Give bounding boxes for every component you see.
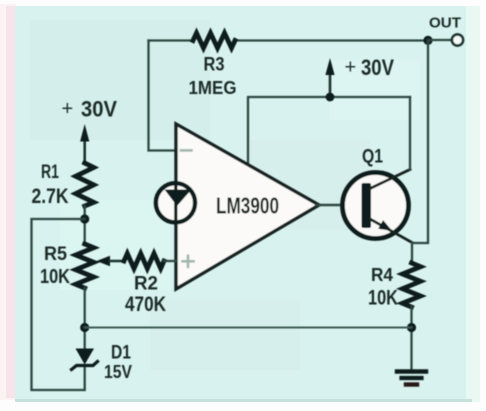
- svg-text:R2: R2: [134, 274, 158, 295]
- svg-text:LM3900: LM3900: [216, 193, 279, 219]
- wire V+ rail: [248, 97, 410, 164]
- svg-text:R5: R5: [44, 244, 67, 265]
- svg-text:2.7K: 2.7K: [32, 185, 69, 208]
- wire to output terminal: [428, 39, 451, 41]
- wire op-amp output to base: [316, 204, 361, 206]
- wire feedback left drop to inverting input: [149, 41, 177, 151]
- svg-text:10K: 10K: [368, 287, 398, 310]
- svg-text:OUT: OUT: [429, 15, 461, 32]
- zener diode D1: [72, 349, 98, 370]
- wire collector to V+ rail: [409, 97, 411, 170]
- node R1/R5 junction: [80, 214, 89, 223]
- ground: [397, 372, 426, 385]
- svg-text:R1: R1: [41, 162, 59, 183]
- node ground rail junction right: [407, 323, 416, 332]
- transistor Q1: [343, 170, 413, 243]
- wire emitter to R4 and OUT: [412, 40, 428, 263]
- svg-text:+: +: [345, 57, 357, 79]
- wire ground rail: [85, 326, 412, 328]
- node V+ rail junction: [326, 93, 335, 102]
- wiper arrow R5: [97, 256, 125, 266]
- svg-text:R4: R4: [371, 265, 393, 285]
- pin plus input: [183, 256, 194, 267]
- svg-text:10K: 10K: [40, 266, 70, 288]
- power +30V arrow (left): [80, 124, 89, 163]
- potentiometer R5: [76, 244, 94, 288]
- power +30V arrow (right): [325, 58, 334, 97]
- wire R2 to plus input: [164, 260, 176, 262]
- pin minus input: [181, 149, 192, 152]
- svg-text:Q1: Q1: [362, 147, 383, 168]
- svg-text:470K: 470K: [125, 293, 166, 316]
- resistor R4: [403, 263, 421, 307]
- wire left loop: [32, 219, 85, 390]
- op-amp U1 LM3900: [176, 124, 319, 289]
- svg-text:+: +: [62, 98, 74, 120]
- resistor R3: [193, 33, 235, 48]
- terminal OUT: [452, 34, 463, 45]
- svg-text:R3: R3: [204, 54, 225, 76]
- node ground rail junction left: [80, 323, 89, 332]
- svg-text:D1: D1: [111, 343, 131, 364]
- svg-text:30V: 30V: [361, 55, 394, 80]
- wire R5 bottom to D1: [84, 288, 86, 349]
- wire R1 to R5: [84, 206, 86, 244]
- current source symbol: [156, 183, 195, 222]
- svg-text:15V: 15V: [104, 362, 132, 382]
- node OUT junction: [423, 36, 432, 45]
- resistor R2: [124, 254, 164, 269]
- svg-text:1MEG: 1MEG: [189, 77, 237, 98]
- svg-text:30V: 30V: [81, 97, 117, 122]
- wire top feedback/output rail: [149, 39, 429, 41]
- resistor R1: [76, 163, 94, 206]
- wire R4 to ground: [410, 307, 412, 371]
